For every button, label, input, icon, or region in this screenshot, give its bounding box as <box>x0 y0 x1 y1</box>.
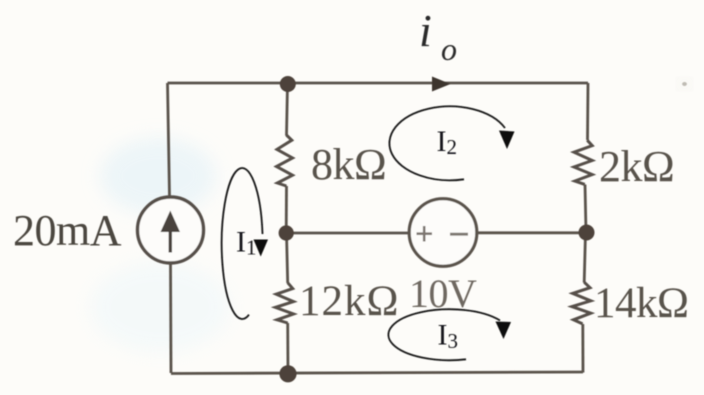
wire middle vertical (mid node to 12k) <box>287 233 288 283</box>
resistor R2 2k (zigzag) <box>574 140 592 184</box>
resistor R4 14k (zigzag) <box>572 282 591 324</box>
svg-text:i: i <box>419 5 432 56</box>
arrow io on top wire <box>432 77 451 92</box>
svg-text:12kΩ: 12kΩ <box>299 278 399 325</box>
node bottom middle <box>279 365 296 382</box>
svg-text:8kΩ: 8kΩ <box>311 140 386 189</box>
wire right vertical bottom (14k to bottom rail) <box>581 324 584 373</box>
watermark blue blob lower <box>90 262 230 352</box>
paper speck artifact <box>681 81 689 87</box>
mesh arrow I2 (ellipse arc with down arrowhead) <box>389 106 514 180</box>
svg-text:20mA: 20mA <box>13 206 122 255</box>
watermark blue blob upper <box>100 138 216 214</box>
svg-text:2kΩ: 2kΩ <box>599 142 674 191</box>
wire bottom rail <box>171 372 583 374</box>
current source I=20mA (circle with up arrow) <box>138 197 204 263</box>
wire middle horizontal left (mid node to V source) <box>286 232 408 235</box>
resistor R1 8k (zigzag) <box>277 135 293 186</box>
wire right vertical upper <box>586 83 589 140</box>
mesh arrow I1 (tall ellipse arc with down arrowhead) <box>222 168 268 319</box>
wire middle vertical (8k to mid node) <box>285 186 288 233</box>
mesh arrow I3 (ellipse arc with down arrowhead) <box>388 309 511 360</box>
voltage source 10V (circle with + -) <box>409 199 477 267</box>
svg-text:14kΩ: 14kΩ <box>594 280 688 327</box>
wire top (node A top rail) <box>168 82 589 85</box>
node mid right <box>579 225 595 241</box>
resistor R3 12k (zigzag) <box>275 283 293 323</box>
wire right vertical mid (2k to right node) <box>585 185 586 233</box>
wire left vertical lower (source to bottom rail) <box>169 264 172 373</box>
node top middle <box>280 76 296 92</box>
node mid left <box>279 225 294 240</box>
wire middle vertical top (top node to 8k) <box>287 84 288 136</box>
svg-text:o: o <box>441 31 457 67</box>
wire right vertical lower mid (right node to 14k) <box>584 233 585 283</box>
wire middle vertical bottom (12k to bottom node) <box>286 323 289 374</box>
wire middle horizontal right (V source to right node) <box>478 231 587 234</box>
wire left vertical upper (source to top rail) <box>168 83 170 196</box>
